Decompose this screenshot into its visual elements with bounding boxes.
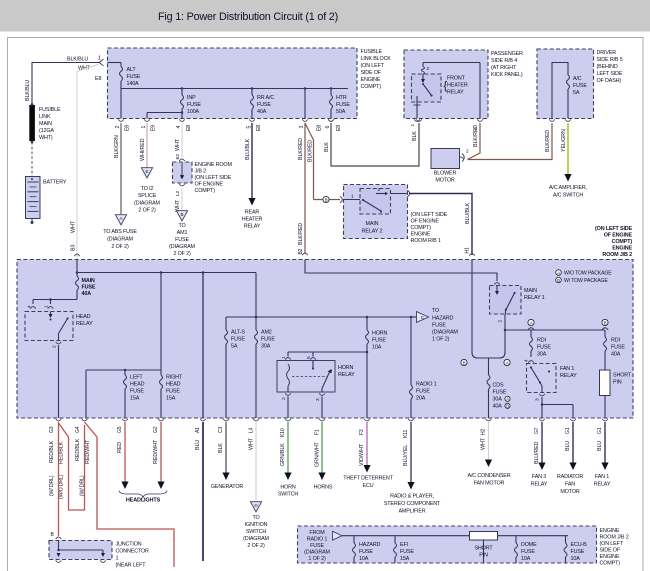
svg-text:(DIAGRAM: (DIAGRAM [304,550,330,556]
svg-text:BLK: BLK [412,131,418,141]
svg-text:FAN MOTOR: FAN MOTOR [474,481,505,487]
svg-text:YEL/GRN: YEL/GRN [561,129,567,152]
svg-text:SIDE OF: SIDE OF [361,70,382,76]
svg-text:10A: 10A [571,556,581,562]
svg-text:ROOM R/B 1: ROOM R/B 1 [411,238,441,244]
svg-text:BLK: BLK [324,142,330,152]
svg-text:FAN 1: FAN 1 [595,474,609,480]
svg-text:FUSE: FUSE [432,323,446,329]
svg-text:140A: 140A [127,81,140,87]
svg-text:BLU: BLU [597,441,603,451]
svg-text:OF ENGINE: OF ENGINE [195,182,224,188]
svg-text:4: 4 [176,126,182,129]
svg-text:FUSE: FUSE [130,389,144,395]
svg-text:E8: E8 [317,125,323,131]
svg-text:10A: 10A [521,556,531,562]
svg-text:BATTERY: BATTERY [43,180,67,186]
relay MAIN RELAY 2 (ENGINE ROOM R/B 1) [344,185,408,239]
svg-text:FUSE: FUSE [175,237,189,243]
svg-text:SIDE OF: SIDE OF [600,548,621,554]
svg-text:LINK BLOCK: LINK BLOCK [361,56,392,62]
svg-text:EFI: EFI [400,542,408,548]
svg-text:B: B [604,320,607,325]
svg-text:A: A [530,320,533,325]
svg-text:COMPT): COMPT) [195,188,216,194]
fuse HTR 50A [330,89,332,96]
svg-text:RELAY: RELAY [76,321,93,327]
svg-text:REAR: REAR [245,210,260,216]
svg-text:BLU: BLU [195,440,201,450]
wire A1 drop [202,273,204,419]
svg-text:WHT: WHT [175,199,181,212]
svg-text:ENGINE: ENGINE [411,232,431,238]
svg-text:MOTOR: MOTOR [560,489,579,495]
svg-text:BLK/RED: BLK/RED [298,223,304,245]
svg-text:E9: E9 [151,125,157,131]
svg-text:BLK/BLU: BLK/BLU [67,57,88,63]
svg-text:W/O TOW PACKAGE: W/O TOW PACKAGE [564,271,612,277]
svg-text:30A: 30A [537,352,547,358]
svg-text:L4: L4 [249,427,255,433]
svg-text:COMPT): COMPT) [361,84,382,90]
svg-text:MOTOR: MOTOR [435,178,454,184]
svg-text:RELAY: RELAY [338,372,355,378]
svg-text:RR A/C: RR A/C [257,95,274,101]
svg-text:HEADLIGHTS: HEADLIGHTS [126,498,161,504]
svg-text:100A: 100A [187,109,200,115]
svg-text:(DIAGRAM: (DIAGRAM [169,244,195,250]
svg-text:FUSE: FUSE [127,74,141,80]
svg-text:FUSE: FUSE [187,102,201,108]
fuse MAIN 40A [76,273,78,277]
fuse RR A/C 40A [251,89,253,96]
svg-text:E8: E8 [256,125,262,131]
svg-text:FRONT: FRONT [447,76,466,82]
engine room J/B 2 (main box) [17,260,633,419]
svg-text:MAIN: MAIN [524,288,537,294]
svg-text:RED/BLK: RED/BLK [49,440,55,463]
svg-text:RED/BLK: RED/BLK [59,441,65,464]
svg-text:H1: H1 [465,247,471,253]
svg-text:MAIN: MAIN [82,278,95,284]
wire BLK/RED pin 9 to blower motor [468,123,481,160]
svg-text:IGNITION: IGNITION [245,522,268,528]
svg-text:40A: 40A [611,352,621,358]
svg-text:FUSE: FUSE [416,389,430,395]
svg-text:FUSIBLE: FUSIBLE [39,107,61,113]
svg-text:LEFT: LEFT [130,375,143,381]
svg-text:E8: E8 [95,76,101,82]
title bar [0,0,650,32]
connector pins 2,1,4,5,3,6 (box1 bottom exits) [118,119,124,121]
svg-text:MAIN: MAIN [39,121,52,127]
svg-text:Fig 1: Power Distribution Circ: Fig 1: Power Distribution Circuit (1 of … [158,11,338,23]
svg-text:OF DASH): OF DASH) [597,78,622,84]
svg-text:FUSE: FUSE [400,549,414,555]
svg-text:(ON LEFT SIDE: (ON LEFT SIDE [595,226,633,232]
svg-text:E9: E9 [336,125,342,131]
wire BLK/GRN pin 2 E8 to ABS fuse [120,123,122,214]
svg-text:RED/WHT: RED/WHT [85,439,91,464]
svg-text:INP: INP [187,95,196,101]
svg-text:(W/O DRL): (W/O DRL) [59,474,65,499]
svg-text:G4: G4 [75,426,81,433]
relay HEAD RELAY [25,312,73,341]
svg-text:HORN: HORN [338,365,354,371]
connector pins G3,G4,G5,G2,A1,C3,L4,K10,F1,F3,K11,H2,G7,G1,G1 (J/B 2 bottom exits) [56,419,62,421]
svg-text:SIDE R/B 5: SIDE R/B 5 [597,57,623,63]
svg-text:TO: TO [252,515,259,521]
svg-text:40A: 40A [493,404,503,410]
wire H1 drop to CDS fuse (node B) [471,260,473,353]
svg-text:PASSENGER: PASSENGER [491,51,523,57]
svg-text:A: A [506,360,509,365]
svg-text:KICK PANEL): KICK PANEL) [491,72,523,78]
svg-text:GENERATOR: GENERATOR [211,484,244,490]
triangle E (to I2 splice) [141,168,152,178]
svg-text:ENGINE: ENGINE [600,554,620,560]
svg-text:15A: 15A [130,396,140,402]
svg-text:2 OF 2): 2 OF 2) [111,244,129,250]
svg-text:(DIAGRAM: (DIAGRAM [107,237,133,243]
svg-text:FUSE: FUSE [310,543,324,549]
fuse INP 100A [181,89,183,96]
svg-text:B: B [506,404,509,409]
svg-text:BLK/RED: BLK/RED [473,125,479,147]
svg-text:VIO/WHT: VIO/WHT [359,443,365,466]
svg-text:THEFT DETERRENT: THEFT DETERRENT [343,476,393,482]
wire BLK/RED to main relay 2 pin 1 (node B) [314,199,341,201]
svg-text:BLU/BLK: BLU/BLK [245,138,251,160]
fuse RDI 40A (B) [604,330,606,337]
svg-text:1 OF 2): 1 OF 2) [432,337,450,343]
svg-text:FUSE: FUSE [521,549,535,555]
svg-text:HORNS: HORNS [314,485,333,491]
svg-text:WHT: WHT [71,220,77,233]
svg-text:BLK/RED: BLK/RED [545,130,551,152]
svg-text:(BEHIND: (BEHIND [597,64,618,70]
short pin [600,370,611,396]
wire BLK pin 6 E9 to front heater relay [331,123,419,166]
svg-text:HEATER: HEATER [447,83,468,89]
svg-text:RELAY: RELAY [560,373,577,379]
svg-text:RELAY: RELAY [594,482,611,488]
wire YEL/GRN to A/C amplifier, A/C switch [567,123,569,174]
svg-text:(AT RIGHT: (AT RIGHT [491,65,517,71]
svg-text:(12GA: (12GA [39,128,54,134]
fuse AM2 30A [255,317,257,330]
svg-text:3: 3 [299,126,305,129]
svg-text:G1: G1 [565,427,571,434]
svg-text:WHI/RED: WHI/RED [140,138,146,161]
svg-text:A: A [557,270,560,275]
svg-text:(ON LEFT SIDE: (ON LEFT SIDE [411,212,448,218]
svg-text:(DIAGRAM: (DIAGRAM [432,330,458,336]
svg-text:RADIO & PLAYER,: RADIO & PLAYER, [390,494,434,500]
svg-text:AM2: AM2 [261,330,272,336]
wire fan 1 relay pin 3 to G7/G1 [541,397,543,405]
svg-text:DOME: DOME [521,542,537,548]
svg-text:BLK/RED: BLK/RED [308,140,314,162]
svg-text:RIGHT: RIGHT [166,375,183,381]
svg-text:RADIO 1: RADIO 1 [416,382,437,388]
svg-text:WHT: WHT [175,138,181,151]
svg-text:BLOWER: BLOWER [434,171,457,177]
wire main relay 1 pin 2 to RDI fuses [505,329,605,331]
svg-text:30A: 30A [493,397,503,403]
svg-text:ECU: ECU [363,483,374,489]
svg-text:RED/BLK: RED/BLK [75,438,81,461]
svg-text:CDS: CDS [493,383,504,389]
svg-text:10A: 10A [359,556,369,562]
svg-text:RELAY: RELAY [531,482,548,488]
svg-text:50A: 50A [336,109,346,115]
svg-text:40A: 40A [257,109,267,115]
wire WHT (B3) to engine room J/B 2 main fuse [77,65,98,72]
svg-text:(W/ DRL): (W/ DRL) [80,475,86,496]
svg-text:HEAD: HEAD [76,314,91,320]
svg-text:1: 1 [116,556,119,562]
svg-text:2 OF 2): 2 OF 2) [138,208,156,214]
svg-text:ALT: ALT [127,67,137,73]
triangle C (to hazard fuse) [411,316,417,318]
svg-text:FUSE: FUSE [336,102,350,108]
svg-text:BLK/RED: BLK/RED [298,138,304,160]
svg-text:FUSE: FUSE [571,549,585,555]
svg-text:MAIN: MAIN [366,221,379,227]
svg-text:RED/WHT: RED/WHT [153,439,159,464]
svg-text:SHORT: SHORT [613,373,632,379]
svg-text:A/C AMPLIFIER,: A/C AMPLIFIER, [549,185,588,191]
svg-text:(DIAGRAM: (DIAGRAM [243,536,269,542]
svg-text:E: E [146,169,149,174]
relay HORN RELAY [277,361,335,393]
svg-text:FUSE: FUSE [257,102,271,108]
svg-text:JUNCTION: JUNCTION [116,542,142,548]
svg-text:A/C SWITCH: A/C SWITCH [553,193,584,199]
wire WHI/RED pin 1 E9 to I2 splice [146,123,148,168]
svg-text:B: B [325,197,328,202]
svg-text:(ON LEFT SIDE: (ON LEFT SIDE [195,175,232,181]
svg-text:ECU-B: ECU-B [571,542,588,548]
svg-text:RADIO 1: RADIO 1 [307,537,328,543]
svg-text:(ON LEFT: (ON LEFT [361,63,385,69]
triangle A (to ABS fuse) [115,215,126,225]
wire headlight fuse feed [160,273,162,371]
svg-text:10A: 10A [372,345,382,351]
svg-text:SWITCH: SWITCH [246,529,267,535]
wires BLK/RED pin 3 E8 pair [304,123,306,253]
svg-text:HEAD: HEAD [166,382,181,388]
svg-text:J/B 2: J/B 2 [195,169,207,175]
svg-text:GRN/BLK: GRN/BLK [280,443,286,466]
fuse ECU-B 10A [565,536,567,543]
svg-text:FAN 1: FAN 1 [560,366,574,372]
svg-text:30A: 30A [261,344,271,350]
passenger side R/B 4 (AT RIGHT KICK PANEL) [404,50,488,119]
relay MAIN RELAY 1 [490,286,522,315]
svg-text:(W/ DRL): (W/ DRL) [49,475,55,496]
svg-text:FUSE: FUSE [82,285,96,291]
svg-text:1: 1 [98,56,101,62]
fuse A/C 5A [552,63,568,119]
fuse RIGHT HEAD 15A [160,370,162,375]
wire BLK/BLU from fusible link to fusible link block [32,62,99,64]
svg-text:(DIAGRAM: (DIAGRAM [134,201,160,207]
svg-text:G3: G3 [49,426,55,433]
svg-text:K10: K10 [280,428,286,437]
svg-text:W/ TOW PACKAGE: W/ TOW PACKAGE [564,278,608,284]
svg-text:BLK: BLK [218,443,224,453]
svg-text:COMPT): COMPT) [411,225,432,231]
svg-text:BLU/YEL: BLU/YEL [403,445,409,466]
fuse ALT 140A [108,62,122,64]
svg-text:K11: K11 [403,430,409,438]
svg-text:GRN/WHT: GRN/WHT [315,441,321,467]
wire BLK/RED from driver side R/B 5 to blower motor [468,123,553,160]
svg-text:FROM: FROM [309,530,325,536]
svg-text:ENGINE: ENGINE [361,77,381,83]
svg-text:BLU/BLK: BLU/BLK [465,202,471,224]
svg-text:G1: G1 [597,427,603,434]
fuse RADIO 1 20A [410,317,412,385]
battery [26,177,41,219]
svg-text:WHT: WHT [249,437,255,450]
svg-text:SWITCH: SWITCH [278,492,299,498]
svg-text:CONNECTOR: CONNECTOR [116,549,150,555]
bus A inside J/B 2 [76,260,78,273]
svg-text:RDI: RDI [611,338,620,344]
svg-text:1: 1 [141,126,147,129]
svg-text:BLU/RED: BLU/RED [534,441,540,464]
svg-text:G5: G5 [117,426,123,433]
svg-text:1 OF 2): 1 OF 2) [308,556,326,562]
svg-text:L2: L2 [175,190,181,196]
svg-text:RDI: RDI [537,338,546,344]
relay FAN 1 RELAY [527,364,557,393]
svg-text:SHORT: SHORT [474,546,493,552]
svg-text:HEATER: HEATER [242,217,263,223]
svg-text:F1: F1 [315,429,321,435]
svg-text:F3: F3 [359,429,365,435]
driver side R/B 5 (BEHIND LEFT SIDE OF DASH) [537,49,594,119]
fuse HORN 10A [366,317,368,330]
engine room J/B 2 (small box) [173,162,193,183]
svg-text:E8: E8 [186,125,192,131]
legend A/B tow package [556,270,562,276]
svg-text:HAZARD: HAZARD [359,542,381,548]
svg-text:5A: 5A [573,90,580,96]
bus B from B2 to main relay 1 [305,260,497,282]
svg-text:SIDE R/B 4: SIDE R/B 4 [491,58,517,64]
svg-text:LEFT SIDE: LEFT SIDE [597,71,623,77]
svg-text:FUSIBLE: FUSIBLE [361,49,383,55]
svg-text:2 OF 2): 2 OF 2) [247,543,265,549]
svg-text:40A: 40A [82,291,92,297]
fuse RDI 30A (A) [530,330,532,337]
svg-text:FUSE: FUSE [359,549,373,555]
svg-text:A/C: A/C [573,76,582,82]
svg-text:STEREO COMPONENT: STEREO COMPONENT [384,501,441,507]
engine room J/B 2 (bottom fuse box) [298,526,597,563]
svg-text:G2: G2 [153,426,159,433]
svg-text:OF ENGINE: OF ENGINE [411,219,440,225]
svg-text:B: B [557,278,560,283]
svg-text:TO I2: TO I2 [141,186,154,192]
svg-text:HAZARD: HAZARD [432,316,454,322]
wire main fuse to head relay pins 4,1 [33,299,77,301]
svg-text:TO: TO [432,308,439,314]
svg-text:RELAY 2: RELAY 2 [362,229,383,235]
svg-text:HTR: HTR [336,95,347,101]
svg-text:FAN 3: FAN 3 [532,474,546,480]
short pin (bottom bus) [470,532,498,541]
svg-text:RELAY 1: RELAY 1 [524,295,545,301]
svg-text:ALT-S: ALT-S [231,330,245,336]
svg-text:RED: RED [117,442,123,453]
svg-text:FUSE: FUSE [231,337,245,343]
wire BLU/BLK main relay 2 pin 2 to H1 [409,194,472,256]
wire pin 3 drop [304,89,306,119]
fuse LEFT HEAD 15A [124,370,126,375]
fuse DOME 10A [515,536,517,543]
fuse EFI 15A [394,536,396,543]
svg-text:RELAY: RELAY [244,224,261,230]
fuse CDS 30A(A)/40A(B) [488,358,490,375]
wire head relay pin 2 to G3 [58,345,60,418]
svg-text:FUSE: FUSE [493,390,507,396]
svg-text:E8: E8 [125,125,131,131]
svg-text:FUSE: FUSE [611,345,625,351]
svg-text:FUSE: FUSE [372,338,386,344]
svg-text:RELAY: RELAY [447,90,464,96]
svg-text:AM1: AM1 [177,230,188,236]
fusible link block (ON LEFT SIDE OF ENGINE COMPT) [108,48,358,119]
svg-text:HORN: HORN [372,331,388,337]
svg-text:A/C CONDENSER: A/C CONDENSER [468,473,511,479]
svg-text:FAN: FAN [565,482,575,488]
svg-text:HEAD: HEAD [130,382,145,388]
svg-text:RADIATOR: RADIATOR [557,474,583,480]
blower motor [431,149,460,169]
svg-text:B: B [181,212,184,217]
svg-text:BLK/BLU: BLK/BLU [25,80,31,101]
svg-text:2: 2 [115,126,121,129]
relay FRONT HEATER RELAY [412,74,442,102]
svg-text:ENGINE ROOM: ENGINE ROOM [195,162,233,168]
bus inside fusible link block [121,88,348,90]
svg-text:PIN: PIN [479,553,488,559]
svg-text:(NEAR LEFT: (NEAR LEFT [116,563,147,569]
svg-text:AMPLIFIER: AMPLIFIER [398,509,425,515]
svg-text:BLU: BLU [565,441,571,451]
svg-text:(ON LEFT: (ON LEFT [600,541,624,547]
svg-text:20A: 20A [416,396,426,402]
svg-text:COMPT): COMPT) [612,239,633,245]
svg-text:TO ABS FUSE: TO ABS FUSE [103,229,137,235]
svg-text:DRIVER: DRIVER [597,50,617,56]
fuse ALT-S 5A [225,317,227,330]
svg-text:LINK: LINK [39,114,51,120]
svg-text:ENGINE: ENGINE [612,246,632,252]
svg-text:G7: G7 [534,427,540,434]
svg-text:TO: TO [178,223,185,229]
svg-text:2 OF 2): 2 OF 2) [173,251,191,257]
svg-text:6: 6 [325,126,331,129]
svg-text:ENGINE: ENGINE [600,528,620,534]
svg-text:A1: A1 [195,427,201,433]
connector pin 1 E8 (box1 left entry) [99,59,103,66]
